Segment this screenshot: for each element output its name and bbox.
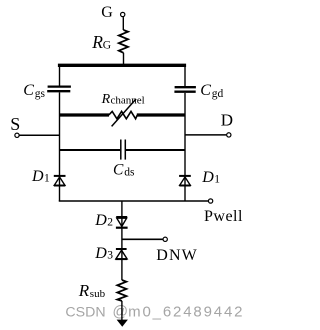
- svg-text:R: R: [78, 281, 90, 300]
- node D terminal circle: [227, 133, 231, 137]
- svg-text:G: G: [101, 4, 113, 21]
- svg-text:C: C: [113, 161, 124, 178]
- wire G to RG: [122, 17, 124, 30]
- right rail wire lower: [184, 93, 186, 201]
- resistor Rchannel zigzag: [109, 111, 138, 118]
- svg-text:CSDN: CSDN: [65, 304, 105, 320]
- svg-text:D: D: [94, 245, 107, 262]
- svg-text:C: C: [23, 82, 34, 99]
- svg-text:G: G: [103, 40, 111, 52]
- resistor RG zigzag: [119, 30, 128, 53]
- resistor Rsub zigzag: [117, 280, 126, 301]
- left rail wire upper: [59, 64, 61, 86]
- node S terminal circle: [15, 133, 19, 137]
- svg-text:D: D: [221, 111, 233, 130]
- diode D1 left: [54, 176, 66, 186]
- svg-text:C: C: [200, 82, 211, 99]
- node G terminal circle: [121, 12, 125, 16]
- capacitor Cds plates: [120, 140, 122, 160]
- node Pwell terminal circle: [208, 199, 212, 203]
- svg-text:sub: sub: [90, 288, 106, 300]
- svg-text:D: D: [201, 169, 214, 186]
- Rchannel variable diagonal line: [112, 99, 137, 127]
- svg-text:1: 1: [44, 173, 50, 185]
- channel line left (thick): [60, 113, 110, 116]
- svg-text:Pwell: Pwell: [204, 208, 243, 225]
- node DNW terminal circle: [163, 237, 167, 241]
- channel line right (thick): [137, 113, 185, 116]
- wire RG to gate line: [123, 53, 125, 66]
- svg-text:S: S: [10, 114, 20, 134]
- bottom Pwell wire: [59, 200, 208, 202]
- svg-text:DNW: DNW: [156, 247, 198, 264]
- svg-text:2: 2: [107, 217, 113, 229]
- svg-text:3: 3: [107, 250, 113, 262]
- diode D3: [115, 249, 127, 259]
- svg-text:D: D: [94, 212, 107, 229]
- wire to DNW: [122, 238, 163, 240]
- wire Cds right: [126, 149, 185, 151]
- diode D2: [116, 217, 128, 228]
- diode D1 right: [179, 176, 191, 186]
- svg-text:R: R: [101, 92, 111, 107]
- capacitor Cgd plates: [175, 86, 196, 88]
- svg-text:1: 1: [214, 174, 220, 186]
- wire Cds left: [60, 149, 121, 151]
- wire Rsub to bulk arrow: [121, 301, 123, 321]
- wire D to right rail: [185, 134, 226, 136]
- svg-text:gd: gd: [212, 88, 224, 100]
- svg-text:gs: gs: [35, 88, 46, 100]
- wire S to left rail: [19, 134, 59, 136]
- svg-text:@: @: [112, 303, 128, 320]
- svg-text:channel: channel: [111, 95, 145, 107]
- svg-text:ds: ds: [124, 166, 135, 178]
- svg-text:D: D: [31, 168, 44, 185]
- svg-text:m0_62489442: m0_62489442: [128, 303, 244, 320]
- left rail wire lower: [59, 92, 61, 201]
- mid rail wire: [121, 201, 123, 280]
- capacitor Cgs plates: [48, 85, 71, 87]
- gate top line (thick): [58, 64, 186, 67]
- bulk substrate arrow: [117, 320, 128, 327]
- svg-text:R: R: [91, 32, 103, 52]
- right rail wire upper: [184, 64, 186, 86]
